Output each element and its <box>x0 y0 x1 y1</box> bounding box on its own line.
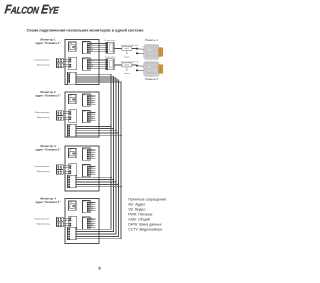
svg-text:Переключение: Переключение <box>34 112 50 114</box>
connector П1 (M4) <box>83 201 91 213</box>
hook/video connector (M2) <box>69 110 77 123</box>
svg-text:кабель: кабель <box>124 57 130 59</box>
svg-text:AD: Аудио: AD: Аудио <box>128 202 145 206</box>
monitor M4 outer box <box>65 199 99 244</box>
wires: to switch blocks (M3) <box>63 166 69 173</box>
connector П2 (M1) <box>83 58 91 70</box>
terminal block 2 (M4) <box>57 222 64 227</box>
svg-text:4x0,5: 4x0,5 <box>125 65 129 67</box>
arrow to cable note (M1 П2 row) <box>124 67 130 75</box>
power switch block (M2) <box>69 95 77 104</box>
door panel 1 <box>136 45 163 59</box>
connector П2 (M2) <box>83 111 91 123</box>
label: wire colors (M1 П1 row) <box>121 44 139 47</box>
svg-text:Принятые сокращения:: Принятые сокращения: <box>128 197 167 201</box>
svg-text:Схема подключения нескольких м: Схема подключения нескольких мониторов в… <box>27 29 144 33</box>
wires: П1 (M2) pin stubs <box>89 94 96 105</box>
cable spec box (M1 П1 row) <box>122 46 132 50</box>
svg-text:адрес "Комната 4": адрес "Комната 4" <box>35 200 61 204</box>
wires: П2 (M2) pin stubs <box>89 110 96 121</box>
label: switching / video out (M1) <box>34 59 50 66</box>
wires: П2 (M1) pin stubs <box>89 58 106 69</box>
svg-text:o: o <box>71 66 72 68</box>
power switch block (M4) <box>69 201 77 210</box>
svg-text:VD: Видео: VD: Видео <box>128 208 145 212</box>
svg-text:o: o <box>71 117 72 119</box>
connector П1 (M2) <box>83 94 91 106</box>
monitor M1 outer box <box>65 40 99 85</box>
svg-text:4x0,5: 4x0,5 <box>125 48 129 50</box>
svg-text:Соединитель: Соединитель <box>105 40 116 42</box>
svg-text:PWR: Питание: PWR: Питание <box>128 213 152 217</box>
svg-text:DATA: Шина данных: DATA: Шина данных <box>128 223 162 227</box>
svg-text:o: o <box>71 111 72 113</box>
connector П1 (M1) <box>83 42 91 54</box>
svg-text:Переключение: Переключение <box>34 166 50 168</box>
bus connector (M3) <box>68 175 77 187</box>
svg-text:адрес "Комната 2": адрес "Комната 2" <box>35 94 61 98</box>
svg-text:Видеовыход: Видеовыход <box>37 65 50 67</box>
terminal block 2 (M1) <box>57 63 64 68</box>
hook/video connector (M1) <box>69 57 77 70</box>
svg-text:EXT: EXT <box>90 51 93 53</box>
wire: cable to panel (M1 П2 row) <box>114 64 137 66</box>
door panel 2 <box>136 62 163 76</box>
wires: bus taps to monitor 3 <box>76 176 122 187</box>
label: switching / video out (M4) <box>34 218 50 225</box>
label panel 2 <box>145 77 158 81</box>
label monitor 3 address <box>35 144 61 152</box>
wires: to switch blocks (M2) <box>63 112 69 119</box>
svg-text:Панель 1: Панель 1 <box>145 38 158 42</box>
svg-text:o: o <box>71 113 72 115</box>
svg-text:o: o <box>71 165 72 167</box>
terminal block 2 (M3) <box>57 170 64 175</box>
title: connection diagram caption <box>27 29 144 33</box>
svg-text:адрес "Комната 3": адрес "Комната 3" <box>35 148 61 152</box>
svg-text:FALCON EYE: FALCON EYE <box>4 3 60 17</box>
svg-text:6: 6 <box>98 266 100 270</box>
svg-text:o: o <box>71 223 72 225</box>
svg-text:o: o <box>71 173 72 175</box>
page number 6 <box>98 266 100 270</box>
svg-text:EXT: EXT <box>90 210 93 212</box>
wire bus: monitor1 output to monitor4, 5 lines <box>76 74 121 239</box>
wires: П1 (M4) pin stubs <box>89 200 96 211</box>
bus connector (M2) <box>68 124 77 136</box>
svg-text:Монитор 3: Монитор 3 <box>40 144 56 148</box>
svg-text:Соединитель: Соединитель <box>105 57 116 59</box>
connector П2 (M4) <box>83 217 91 229</box>
svg-text:Переключение: Переключение <box>34 59 50 61</box>
bus connector (M4) <box>68 227 77 239</box>
svg-text:EXT: EXT <box>90 67 93 69</box>
connector П1 (M3) <box>83 148 91 160</box>
panel-cable connector (M1 П1 row) <box>105 40 116 53</box>
svg-text:o: o <box>71 220 72 222</box>
svg-text:Монитор 1: Монитор 1 <box>40 38 56 42</box>
svg-text:EXT: EXT <box>90 103 93 105</box>
wire: cable to panel (M1 П1 row) <box>114 48 137 50</box>
svg-text:Видеовыход: Видеовыход <box>37 117 50 119</box>
svg-text:Монитор 2: Монитор 2 <box>40 90 56 94</box>
svg-text:o: o <box>71 61 72 63</box>
terminal block 2 (M2) <box>57 116 64 121</box>
label panel 1 <box>145 38 158 42</box>
svg-text:o: o <box>71 119 72 121</box>
svg-text:Панель 2: Панель 2 <box>145 77 158 81</box>
power switch block (M1) <box>69 42 77 51</box>
label monitor 2 address <box>35 90 61 98</box>
svg-text:EXT: EXT <box>90 174 93 176</box>
svg-text:Переключение: Переключение <box>34 218 50 220</box>
label monitor 4 address <box>35 197 61 205</box>
power switch block (M3) <box>69 149 77 158</box>
svg-text:o: o <box>71 218 72 220</box>
hook/video connector (M4) <box>69 216 77 229</box>
svg-text:Видеовыход: Видеовыход <box>37 171 50 173</box>
svg-text:CCTV: Видеокамера: CCTV: Видеокамера <box>128 228 162 232</box>
svg-text:EXT: EXT <box>90 120 93 122</box>
connector П2 (M3) <box>83 165 91 177</box>
bus connector (M1) <box>68 72 77 84</box>
svg-text:o: o <box>71 167 72 169</box>
svg-text:EXT: EXT <box>90 157 93 159</box>
svg-text:адрес "Комната 1": адрес "Комната 1" <box>35 41 61 45</box>
hook/video connector (M3) <box>69 164 77 177</box>
monitor M2 outer box <box>65 92 99 137</box>
wires: П2 (M3) pin stubs <box>89 164 96 175</box>
svg-text:o: o <box>71 64 72 66</box>
label monitor 1 address <box>35 38 61 46</box>
label: switching / video out (M2) <box>34 112 50 119</box>
wires: П1 (M3) pin stubs <box>89 148 96 159</box>
legend: abbreviations <box>128 197 167 231</box>
cable spec box (M1 П2 row) <box>122 63 132 67</box>
arrow to cable note (M1 П1 row) <box>124 50 130 58</box>
wires: П1 (M1) pin stubs <box>89 41 106 52</box>
wires: to switch blocks (M1) <box>63 59 69 66</box>
wires: bus taps to monitor 2 <box>76 126 122 136</box>
panel-cable connector (M1 П2 row) <box>105 57 116 70</box>
svg-text:EXT: EXT <box>90 226 93 228</box>
wires: П2 (M4) pin stubs <box>89 217 96 228</box>
monitor M3 outer box <box>65 146 99 191</box>
logo Falcon Eye <box>4 3 60 17</box>
terminal block 1 (M4) <box>57 217 64 222</box>
svg-text:Монитор 4: Монитор 4 <box>40 197 56 201</box>
terminal block 1 (M1) <box>57 58 64 63</box>
wires: to switch blocks (M4) <box>63 218 69 225</box>
svg-text:Видеовыход: Видеовыход <box>37 224 50 226</box>
svg-text:o: o <box>71 225 72 227</box>
terminal block 1 (M3) <box>57 165 64 170</box>
terminal block 1 (M2) <box>57 111 64 116</box>
svg-text:кабель: кабель <box>124 73 130 75</box>
svg-text:o: o <box>71 171 72 173</box>
label: switching / video out (M3) <box>34 166 50 173</box>
svg-text:o: o <box>71 59 72 61</box>
svg-text:GND: Общий: GND: Общий <box>128 218 150 222</box>
label: wire colors (M1 П2 row) <box>121 61 139 64</box>
